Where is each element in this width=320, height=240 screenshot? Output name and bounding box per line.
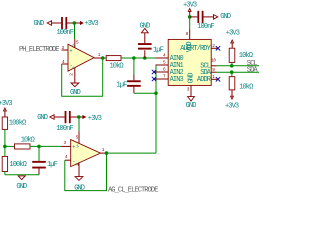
power +3V3 flag mid — [81, 115, 102, 123]
wire SCL — [217, 65, 260, 67]
svg-text:GND: GND — [140, 22, 151, 30]
svg-text:ALERT/RDY: ALERT/RDY — [180, 45, 211, 53]
svg-text:100kΩ: 100kΩ — [9, 120, 26, 128]
IC pin 6 AIN2 no-connect — [152, 67, 168, 74]
resistor 10k pull-up SDA — [229, 77, 253, 92]
svg-text:+3V3: +3V3 — [225, 103, 239, 111]
capacitor 100nF at IC — [190, 11, 215, 31]
wire output to AIN1 — [107, 152, 157, 154]
svg-text:1µF: 1µF — [153, 46, 164, 54]
IC pin 2 ALERT/RDY no-connect — [211, 44, 220, 51]
feedback wire op-amp U1 — [62, 58, 103, 96]
svg-text:100nF: 100nF — [57, 29, 74, 37]
op-amp U3 pin 4 — [65, 155, 71, 160]
IC pin 4 AIN0 — [156, 53, 169, 58]
svg-text:GND: GND — [220, 13, 231, 21]
resistor 10k pull-up SCL — [229, 48, 253, 62]
svg-text:100nF: 100nF — [197, 23, 214, 31]
svg-text:V+: V+ — [73, 44, 77, 48]
resistor R 10k — [106, 56, 123, 71]
ground below op-amp U3 — [74, 177, 85, 193]
wire SDA to pull-up — [231, 72, 233, 77]
op-amp U1 pin 1 output — [94, 53, 103, 58]
wire +3V3 to op-amp 2 V+ — [78, 117, 80, 131]
capacitor C 100nF top-left — [57, 17, 75, 37]
op-amp U1 pin 2 V- — [70, 68, 75, 83]
svg-text:+3V3: +3V3 — [88, 115, 102, 123]
node junction op-amp U1 output — [101, 56, 105, 60]
capacitor 1uF lower — [117, 58, 141, 93]
wire resistor to ADC AIN0 — [121, 57, 156, 59]
node junction AIN1 net — [154, 91, 158, 95]
resistor 100k upper — [2, 117, 26, 129]
node junction cap lower — [132, 56, 136, 60]
node junction IC VDD — [188, 15, 192, 19]
wire 10k to op-amp pin 3 — [30, 145, 62, 147]
svg-text:10kΩ: 10kΩ — [110, 62, 124, 70]
node junction cap upper — [143, 56, 147, 60]
power +3V3 flag bottom-right — [225, 90, 239, 111]
wire SDA — [217, 71, 260, 73]
wire ground rail — [5, 174, 39, 176]
wire +3V3 to op-amp V+ — [74, 23, 76, 39]
IC U2 ADS1115 — [168, 39, 212, 85]
svg-text:100kΩ: 100kΩ — [9, 161, 26, 169]
svg-text:GND: GND — [186, 102, 197, 110]
svg-text:+3V3: +3V3 — [85, 20, 99, 28]
op-amp U1 pin 4 — [62, 60, 68, 65]
IC pin 3 GND — [187, 85, 191, 96]
svg-text:1µF: 1µF — [117, 82, 128, 90]
node junction divider left — [3, 145, 7, 149]
resistor 10k series — [15, 136, 35, 149]
op-amp U1 pin 3 — [62, 46, 69, 51]
svg-text:10kΩ: 10kΩ — [239, 52, 253, 60]
power +3V3 flag top-left — [76, 20, 98, 28]
node junction at +3V3 top-left — [73, 21, 77, 25]
power +3V3 flag lower-left — [0, 100, 12, 117]
node junction op-amp 2 supply — [77, 115, 81, 119]
svg-text:1µF: 1µF — [47, 161, 58, 169]
svg-text:ADDR: ADDR — [197, 76, 212, 84]
wire pull-up to SCL — [231, 62, 233, 65]
resistor 100k lower — [2, 146, 26, 174]
svg-text:GND: GND — [187, 73, 195, 84]
wire cap to AIN1 node — [134, 92, 156, 94]
svg-text:GND: GND — [16, 183, 27, 191]
ground below IC — [186, 97, 197, 111]
op-amp U3 pin 2 V- — [75, 163, 80, 177]
IC pin 8 VDD — [186, 29, 190, 40]
svg-text:10kΩ: 10kΩ — [239, 84, 253, 92]
ground flag mid-left — [37, 114, 64, 122]
capacitor 1uF divider — [32, 146, 57, 174]
op-amp U1 pin 5 V+ — [75, 39, 79, 48]
ground above capacitor — [140, 22, 151, 33]
svg-text:+3V3: +3V3 — [226, 30, 240, 38]
svg-text:PH_ELECTRODE: PH_ELECTRODE — [19, 46, 59, 54]
node junction divider cap — [37, 145, 41, 149]
capacitor 100nF op-amp 2 — [56, 111, 79, 133]
IC pin 7 AIN3 no-connect — [152, 74, 168, 81]
svg-text:+: + — [72, 145, 75, 151]
node junction SDA pull-up — [230, 70, 234, 74]
wire VDD down — [189, 17, 191, 29]
op-amp U3 pin 3 — [62, 141, 71, 146]
wire output to resistor — [103, 57, 107, 59]
svg-text:GND: GND — [34, 20, 45, 28]
feedback wire op-amp U3 — [65, 153, 107, 191]
svg-text:AIN3: AIN3 — [170, 76, 184, 84]
ground flag top-left — [34, 20, 62, 28]
wire 100k to divider node — [4, 129, 6, 146]
op-amp U3 pin 1 output — [100, 148, 106, 153]
op-amp U3 pin 5 V+ — [76, 131, 79, 143]
svg-text:+3V3: +3V3 — [0, 100, 12, 108]
power +3V3 flag above IC — [183, 2, 197, 17]
wire AIN1 net vertical — [156, 65, 157, 153]
svg-text:100nF: 100nF — [56, 125, 73, 133]
ground flag right of IC cap — [214, 13, 231, 21]
svg-text:AG_CL_ELECTRODE: AG_CL_ELECTRODE — [108, 187, 158, 194]
svg-text:V+: V+ — [77, 144, 81, 148]
svg-text:10kΩ: 10kΩ — [21, 136, 35, 144]
wire divider to 10k — [5, 145, 15, 147]
node junction SCL pull-up — [230, 64, 234, 68]
node junction op-amp U3 output — [105, 151, 109, 155]
power +3V3 flag top-right — [226, 30, 240, 49]
svg-text:+: + — [69, 48, 72, 54]
op-amp U3 — [71, 140, 101, 167]
capacitor 1uF to GND upper — [138, 33, 164, 58]
ground below divider — [16, 176, 27, 191]
op-amp U1 — [68, 44, 94, 71]
ground below op-amp U1 — [70, 83, 81, 97]
svg-text:VDD: VDD — [186, 42, 194, 53]
IC pin 9 SDA — [211, 68, 216, 73]
IC pin 5 AIN1 — [156, 60, 169, 65]
svg-text:SDA: SDA — [247, 66, 259, 74]
IC pin 10 SCL — [211, 58, 216, 66]
IC pin 1 ADDR no-connect — [211, 75, 220, 82]
svg-text:GND: GND — [37, 114, 48, 122]
